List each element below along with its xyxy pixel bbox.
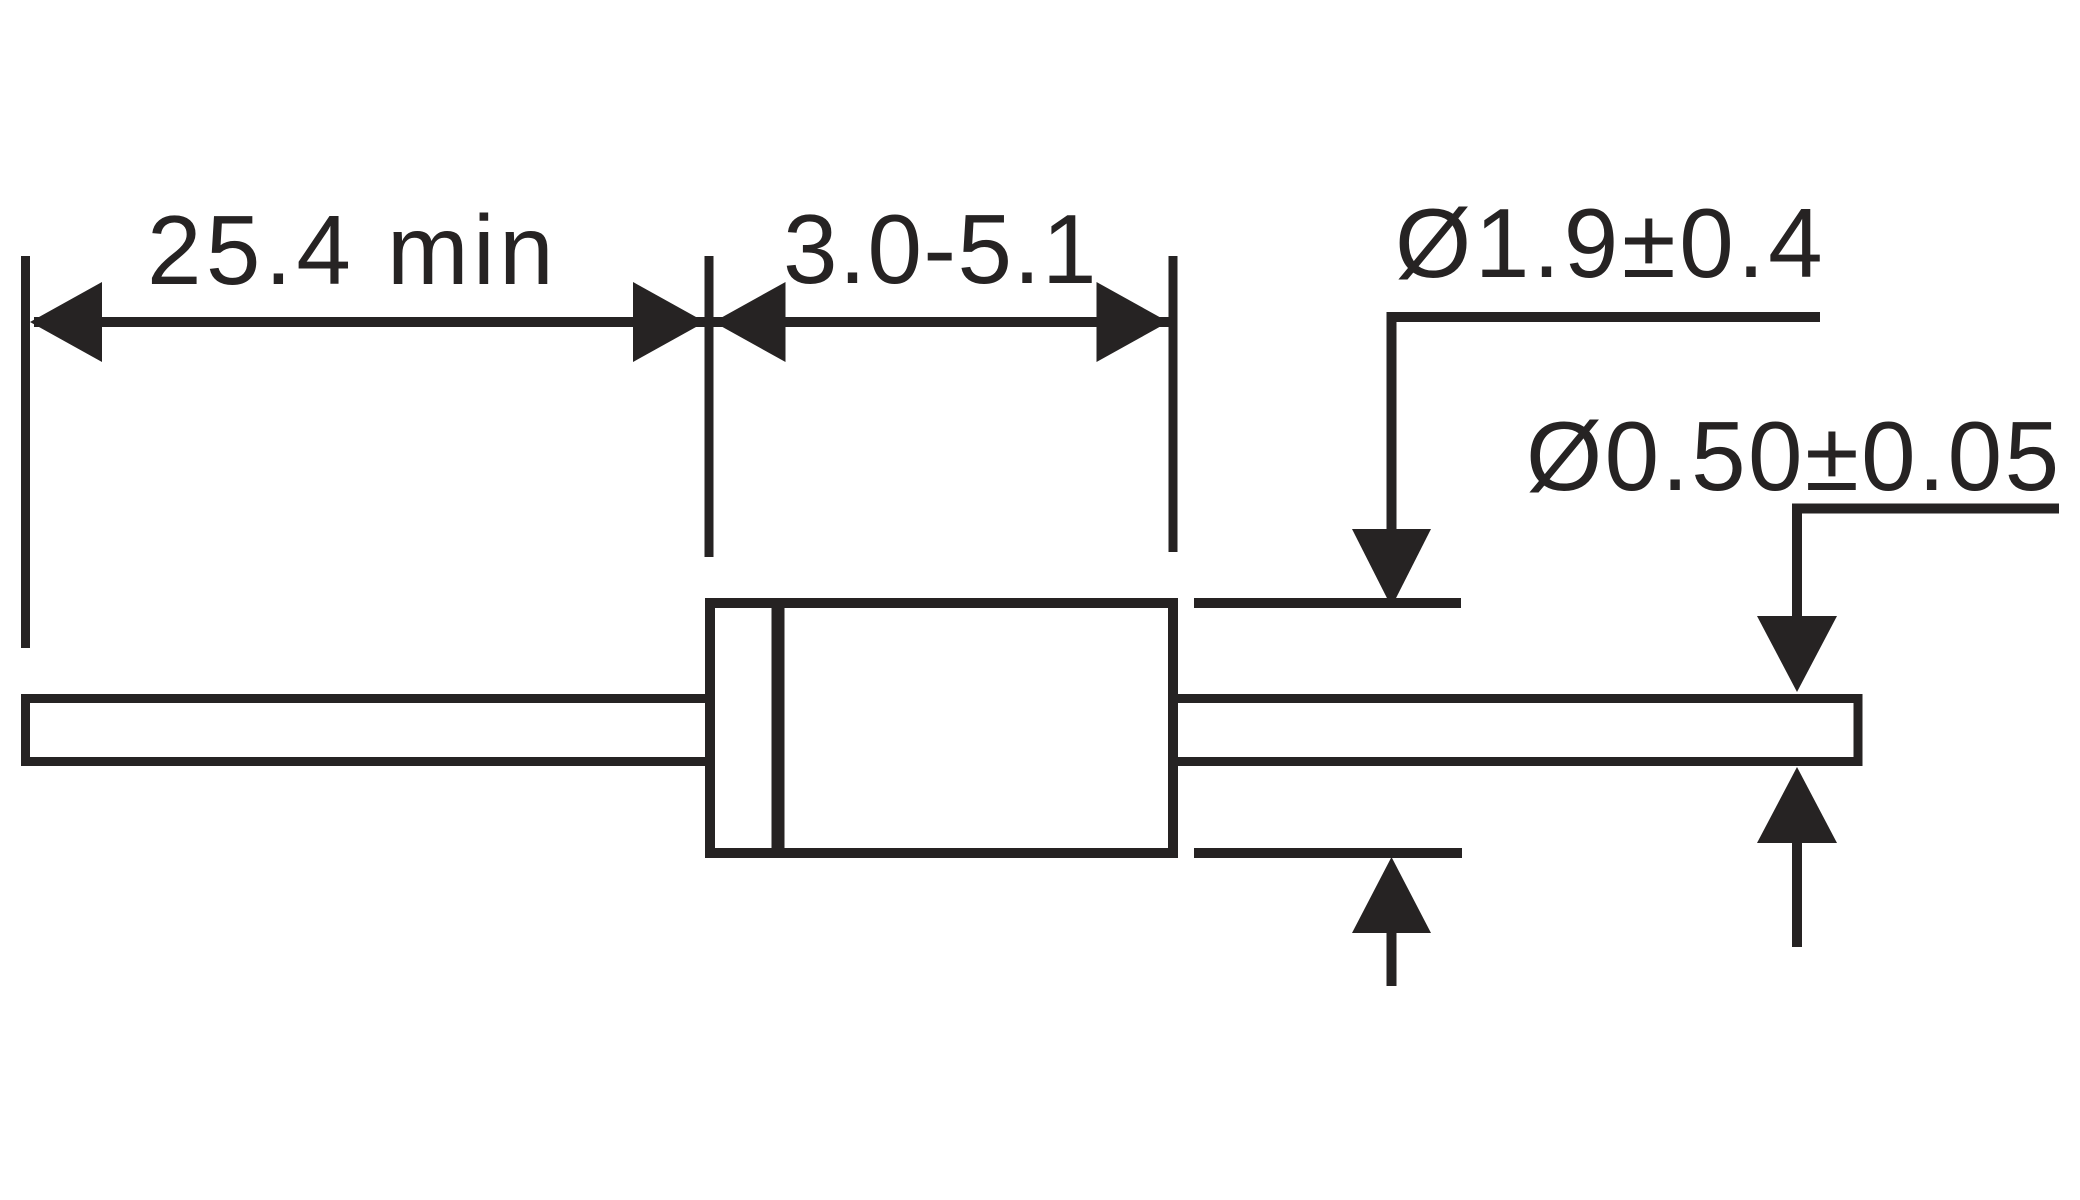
leader line for dia 1.9 [1392, 317, 1821, 529]
arrowhead down dia 0.50 (to lead top) [1757, 616, 1837, 692]
svg-text:25.4 min: 25.4 min [147, 195, 558, 305]
diode body [710, 603, 1173, 853]
extension line body top right [1194, 598, 1461, 608]
arrowhead up dia 0.50 (to lead bottom) [1757, 767, 1837, 843]
extension line left end of lead (dim 25.4) [21, 256, 30, 648]
extension line body bottom right [1194, 848, 1462, 858]
arrowhead down dia 1.9 (to body top) [1352, 529, 1431, 607]
arrowhead right of dim 3.0-5.1 [1097, 282, 1169, 362]
cathode band [772, 608, 785, 848]
arrowhead right of dim 25.4 [633, 282, 705, 362]
leader line for dia 0.50 [1797, 509, 2059, 619]
left lead [26, 699, 714, 762]
arrowhead up dia 1.9 (to body bottom) [1352, 857, 1431, 933]
arrowhead left of dim 25.4 [30, 282, 102, 362]
extension line body right edge (dim 3.0-5.1) [1169, 256, 1178, 552]
stem of up arrow dia 1.9 [1387, 930, 1397, 986]
dimension line 25.4 min [34, 317, 705, 327]
svg-text:Ø0.50±0.05: Ø0.50±0.05 [1526, 401, 2062, 511]
stem of up arrow dia 0.50 [1792, 840, 1802, 947]
arrowhead left of dim 3.0-5.1 [714, 282, 786, 362]
right lead [1170, 699, 1858, 762]
svg-text:3.0-5.1: 3.0-5.1 [783, 194, 1098, 304]
svg-text:Ø1.9±0.4: Ø1.9±0.4 [1395, 188, 1826, 298]
extension line body left edge (dim 25.4 / 3.0-5.1) [705, 256, 714, 557]
dimension line 3.0-5.1 [713, 317, 1169, 327]
